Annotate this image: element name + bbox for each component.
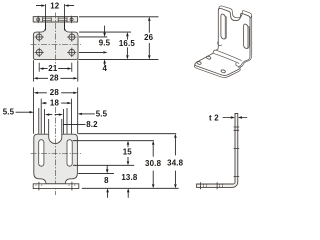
3D left bend relief curl [218, 41, 222, 45]
3D slot right [244, 24, 248, 48]
dim 15 [127, 141, 130, 166]
front view plate [34, 134, 78, 184]
dim t 2 [223, 116, 248, 118]
svg-text:8: 8 [104, 176, 109, 185]
top view hole A1 [35, 32, 44, 41]
3D plate front face outline [218, 8, 250, 56]
dim 5.5 right [78, 113, 95, 115]
dim 26 [148, 17, 151, 60]
svg-text:4: 4 [103, 64, 108, 73]
svg-text:30.8: 30.8 [145, 159, 162, 168]
top view flange bar [33, 16, 77, 23]
svg-text:12: 12 [50, 1, 60, 10]
3D base top face [195, 53, 241, 75]
3D slot left [221, 14, 225, 39]
3D plate top thickness band [218, 6, 251, 55]
side view L profile [197, 114, 238, 188]
3D bend tangent line [216, 50, 242, 61]
dim 30.8 [152, 141, 155, 189]
svg-text:26: 26 [144, 33, 154, 42]
3D plate to base bend left [213, 47, 218, 53]
front view slot left [39, 140, 44, 167]
dim 34.8 [174, 134, 177, 189]
dim 5.5 left [16, 111, 34, 113]
svg-text:34.8: 34.8 [167, 159, 184, 168]
front view dim extension lines above [34, 87, 78, 133]
side view ticks on bottom bar [201, 182, 223, 189]
dim 8.2 leader and text [63, 123, 85, 125]
3D right bend relief [236, 57, 250, 67]
front view centerline vertical [55, 107, 57, 195]
top view centerline vertical [55, 13, 57, 64]
svg-text:5.5: 5.5 [3, 108, 15, 117]
top view body [33, 22, 78, 60]
dim 28 top view [33, 60, 77, 81]
top view hole A3 [35, 48, 44, 57]
svg-text:8.2: 8.2 [86, 120, 98, 129]
svg-text:5.5: 5.5 [96, 109, 108, 118]
svg-text:9.5: 9.5 [99, 39, 111, 48]
dim 18 front view [41, 102, 71, 104]
leader lines right of top view [78, 17, 158, 60]
3D base hole 2 [206, 56, 211, 60]
dim 28 front view [34, 92, 78, 94]
top view hole A2 [67, 32, 76, 41]
top view centerline horizontal [31, 44, 82, 46]
svg-text:13.8: 13.8 [121, 173, 138, 182]
dim 8 [106, 165, 109, 198]
leader lines right of front view [73, 134, 179, 189]
3D base hole 1 [196, 61, 201, 65]
dim 16.5 [126, 32, 129, 59]
svg-text:t 2: t 2 [209, 113, 219, 122]
svg-text:15: 15 [123, 147, 133, 156]
dim 4 [103, 59, 106, 65]
front view base strip [33, 182, 79, 191]
dim 9.5 [103, 26, 107, 54]
front view centerline horizontal [31, 152, 82, 154]
front view slot right [67, 140, 72, 166]
svg-text:28: 28 [50, 74, 60, 83]
dim 21 [39, 63, 72, 72]
svg-text:28: 28 [50, 88, 60, 97]
top view hole A4 [67, 48, 76, 57]
3D base hole 3 [221, 69, 226, 73]
svg-text:16.5: 16.5 [119, 39, 136, 48]
3D bend bottom line [213, 53, 239, 63]
3D right bend relief thickness [238, 55, 252, 67]
3D base thickness [194, 65, 240, 78]
dim 12 [36, 4, 74, 31]
svg-text:21: 21 [48, 64, 58, 73]
dim 8.2 arrows [45, 113, 63, 115]
dim 13.8 [127, 188, 130, 198]
svg-text:18: 18 [50, 98, 60, 107]
3D view bracket [194, 6, 251, 78]
side view ticks on vertical bar [234, 127, 240, 176]
